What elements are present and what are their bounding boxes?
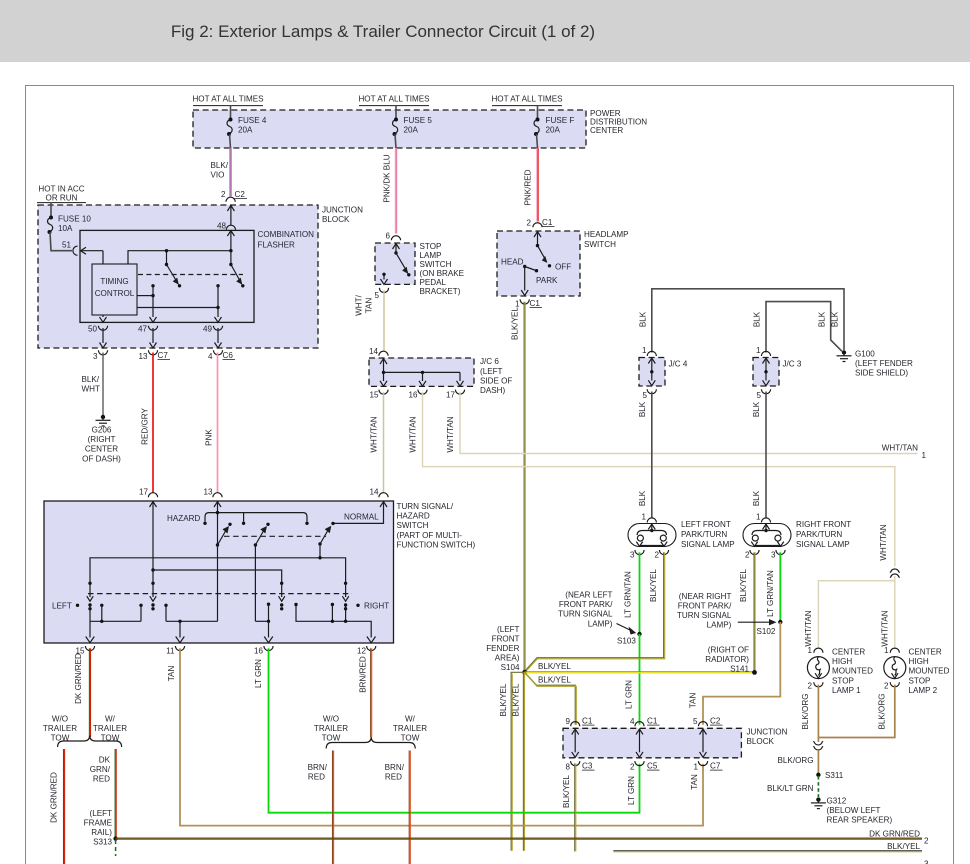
svg-text:LT GRN/TAN: LT GRN/TAN [624,571,633,618]
wire 48 into flasher [227,231,234,251]
svg-text:TAN: TAN [690,774,699,790]
J/C 6 box [369,358,474,386]
wire BLK J/C4 pin5 to left lamp [638,392,652,519]
connector 3 (left lamp bottom-left) [630,550,644,560]
wiper column left (x=90) [87,582,93,622]
wiper column (x=153, open) [150,582,156,611]
wire WHT/TAN branch to stop lamp 1 [804,581,895,649]
svg-text:SWITCH: SWITCH [397,521,429,530]
connector 16 [254,646,273,656]
svg-text:3: 3 [771,551,776,560]
svg-text:C6: C6 [223,351,234,360]
svg-text:NORMAL: NORMAL [344,513,379,522]
svg-text:FUSE 4: FUSE 4 [238,116,267,125]
middle contact bar (pin 11 exit) [164,604,217,643]
connector 2 (stop lamp 2) [884,682,899,691]
fuse FUSE 5 20A [393,116,433,148]
svg-text:STOP: STOP [832,676,854,685]
connector 1 C7 [693,761,722,771]
svg-text:LT GRN: LT GRN [627,776,636,805]
svg-text:1: 1 [756,513,761,522]
power distribution center box [193,110,586,148]
svg-text:BLK: BLK [753,311,762,327]
lower junction block internals [572,729,707,757]
svg-text:WHT/TAN: WHT/TAN [881,610,890,646]
svg-text:PNK/DK BLU: PNK/DK BLU [383,154,392,202]
svg-text:TRAILER: TRAILER [314,724,348,733]
connector 2 C1 (headlamp switch top) [526,218,554,228]
svg-text:HOT AT ALL TIMES: HOT AT ALL TIMES [491,95,563,104]
splice S103 [558,591,642,646]
svg-text:C7: C7 [158,351,169,360]
svg-text:GRN/: GRN/ [90,765,111,774]
svg-text:1: 1 [641,513,646,522]
svg-text:47: 47 [138,325,148,334]
connector 1 (J/C 4 top) [642,346,656,356]
svg-text:C1: C1 [542,218,553,227]
connector 5 (J/C 3 bottom) [756,389,770,400]
svg-text:VIO: VIO [211,171,225,180]
svg-text:(PART OF MULTI-: (PART OF MULTI- [397,531,463,540]
svg-text:JUNCTION: JUNCTION [747,728,788,737]
brace split trailer tow (right) [326,737,415,749]
svg-text:16: 16 [254,647,264,656]
connector 5 (stop lamp switch bottom) [374,288,388,300]
mechanical coupler dashed (lower) [88,593,352,595]
wire pin51 feed into timing control [102,251,104,264]
connector 16 [408,390,427,400]
wire BLK J/C3 pin5 to right lamp [752,392,766,519]
wire RED/GRY pin 13 C7 to turn signal pin 17 [141,353,154,493]
wire BLK/YEL S104 to junction block 9 C1 [525,672,577,725]
svg-text:TRAILER: TRAILER [393,724,427,733]
connector 4 C6 [208,350,235,361]
svg-text:BLK/YEL: BLK/YEL [739,569,748,602]
svg-text:9: 9 [565,717,570,726]
svg-text:JUNCTION: JUNCTION [322,206,363,215]
right front park/turn signal lamp [743,524,791,547]
ground G100 [837,350,914,378]
connector 50 [88,325,108,348]
svg-text:TURN SIGNAL: TURN SIGNAL [558,610,613,619]
svg-text:STOP: STOP [909,676,931,685]
svg-text:(BELOW LEFT: (BELOW LEFT [827,806,881,815]
svg-text:TOW: TOW [401,734,420,743]
svg-text:FUNCTION SWITCH): FUNCTION SWITCH) [397,540,476,549]
svg-text:MOUNTED: MOUNTED [909,667,950,676]
svg-text:PNK/RED: PNK/RED [524,169,533,205]
svg-text:TAN: TAN [167,666,176,682]
lower junction block box [563,728,741,758]
junction block box [38,205,318,348]
svg-text:S311: S311 [825,771,844,780]
center high mounted stop lamp 1 [807,657,829,679]
svg-text:HIGH: HIGH [909,657,929,666]
svg-text:FLASHER: FLASHER [258,241,295,250]
wire stub fuse 10 feed [50,203,52,218]
switch blade right (flasher) [229,251,244,288]
svg-text:C2: C2 [235,190,246,199]
svg-text:HAZARD: HAZARD [397,512,430,521]
svg-text:WHT/TAN: WHT/TAN [882,444,918,453]
svg-text:(NEAR LEFT: (NEAR LEFT [565,591,612,600]
headlamp switch internals [501,232,571,296]
svg-text:TIMING: TIMING [100,277,128,286]
connector 2 (right lamp bottom-left) [745,550,759,560]
svg-text:PNK: PNK [205,429,214,446]
svg-text:51: 51 [62,241,72,250]
svg-text:S102: S102 [757,627,776,636]
wire timing control to pin 50 [100,315,107,322]
inline connector on WHT/TAN at x=895 [879,524,900,648]
connector 13 C7 [138,350,170,361]
svg-text:CENTER: CENTER [85,445,118,454]
svg-text:BLK: BLK [639,311,648,327]
svg-text:BLK/YEL: BLK/YEL [511,307,520,340]
connector 15 (turn switch bottom) [75,646,94,656]
svg-text:HOT AT ALL TIMES: HOT AT ALL TIMES [358,95,430,104]
svg-text:RAIL): RAIL) [91,828,112,837]
svg-text:WHT: WHT [82,385,100,394]
svg-text:DK GRN/RED: DK GRN/RED [74,653,83,704]
svg-text:BRACKET): BRACKET) [420,287,461,296]
svg-text:OF DASH): OF DASH) [82,454,121,463]
connector 1 (stop lamp 2) [884,646,899,655]
svg-text:BLK: BLK [831,311,840,327]
svg-text:3: 3 [924,860,929,864]
svg-text:5: 5 [374,291,379,300]
svg-text:HOT IN ACC: HOT IN ACC [38,185,84,194]
wire BLK/ORG stop lamps to S311 [801,685,895,738]
connector 1 (right front lamp) [756,513,771,523]
splice S311 [816,771,844,780]
svg-text:15: 15 [369,391,379,400]
svg-text:SIGNAL LAMP: SIGNAL LAMP [796,540,850,549]
connector 3 (right lamp bottom-right) [771,550,785,560]
connector 2 (stop lamp 1) [807,682,823,691]
svg-text:2: 2 [807,682,812,691]
svg-text:20A: 20A [238,126,253,135]
svg-text:17: 17 [446,391,456,400]
svg-text:COMBINATION: COMBINATION [258,230,315,239]
wire WHT/TAN J/C6-16 to stop lamps [409,392,895,567]
svg-text:SIDE OF: SIDE OF [480,377,512,386]
svg-text:11: 11 [166,647,175,656]
wire BLK/YEL off-page 3 [613,842,929,864]
svg-text:S103: S103 [617,637,636,646]
wire BRN/RED w/o trailer tow branch [308,751,334,864]
wire DK GRN/RED w/o trailer tow branch [50,749,65,864]
svg-text:CENTER: CENTER [590,126,623,135]
splice S141 [705,646,757,675]
wiper column (x=281.7, open) [279,582,285,611]
wire TAN S102 to junction block 5 C2 [689,622,781,725]
svg-text:G100: G100 [855,350,875,359]
svg-text:BLK: BLK [752,490,761,506]
svg-text:HOT AT ALL TIMES: HOT AT ALL TIMES [192,95,264,104]
svg-text:BLOCK: BLOCK [322,215,350,224]
svg-text:1: 1 [922,451,927,460]
connector 14 (turn switch top) [369,488,388,498]
svg-text:3: 3 [630,551,635,560]
wire BLK/YEL S104 branch left down [499,672,525,850]
svg-text:C1: C1 [530,299,541,308]
svg-text:SWITCH: SWITCH [420,260,452,269]
svg-text:TOW: TOW [101,734,120,743]
wire WHT/TAN J/C6-15 to turn signal pin 14 [370,392,384,493]
svg-text:5: 5 [756,391,761,400]
wire BLK/YEL headlamp switch to splice S104 [511,302,526,673]
svg-text:SIGNAL LAMP: SIGNAL LAMP [681,540,735,549]
second rail from pin 17 [153,570,282,583]
svg-text:BLK/: BLK/ [211,161,229,170]
svg-text:(LEFT: (LEFT [480,367,503,376]
svg-text:BLK/ORG: BLK/ORG [801,694,810,730]
wire WHT/TAN stop lamp switch to J/C 6 pin 14 [355,290,385,351]
contact and wire to pin 47 [137,284,157,322]
svg-text:FRAME: FRAME [84,819,113,828]
svg-text:RIGHT: RIGHT [364,602,389,611]
wire BLK/YEL left lamp pin2 to S104 [525,552,665,672]
hazard blade2 bar (pin 16 exit) [255,603,272,643]
svg-text:FUSE F: FUSE F [546,116,575,125]
svg-text:BLK/YEL: BLK/YEL [538,662,571,671]
J/C 3 internals [763,358,770,386]
splice S102 [677,592,783,636]
pin 13 entry arrow and wire to hazard rail [214,502,221,545]
J/C 3 box [753,358,779,387]
svg-text:WHT/TAN: WHT/TAN [409,416,418,452]
svg-text:(LEFT: (LEFT [497,625,520,634]
wire LT GRN pin 16 to junction block 2 C5 [254,648,640,812]
right contact bar (pin 12 exit) [294,603,375,643]
svg-text:BLK/ORG: BLK/ORG [778,756,814,765]
connector 11 [166,646,185,656]
svg-text:(ON BRAKE: (ON BRAKE [420,269,465,278]
svg-text:20A: 20A [404,126,419,135]
svg-text:12: 12 [357,647,367,656]
svg-text:FRONT: FRONT [492,635,520,644]
wire BLK/YEL junction block 8 C3 down [562,763,576,851]
svg-text:G312: G312 [827,797,847,806]
svg-text:1: 1 [642,346,647,355]
wire DK GRN/RED pin 15 down to trailer tow split [74,648,91,737]
connector 13 (turn switch top) [203,488,222,498]
svg-text:LEFT: LEFT [52,602,72,611]
svg-text:TOW: TOW [322,734,341,743]
connector 14 (J/C 6 top) [369,347,388,356]
svg-text:BLK/YEL: BLK/YEL [499,683,508,716]
turn signal/hazard switch box [44,501,394,643]
connector 1 (stop lamp 1) [807,646,823,655]
contact and wire to pin 49 [137,284,222,322]
connector 17 (turn switch top) [139,488,158,498]
svg-text:1: 1 [693,763,698,772]
wire LT GRN/TAN right lamp pin3 to S102 [766,552,780,622]
svg-text:TOW: TOW [51,734,70,743]
svg-text:AREA): AREA) [495,654,520,663]
svg-text:RIGHT FRONT: RIGHT FRONT [796,520,851,529]
connector 8 C3 (lower junction block bottom) [565,761,594,771]
svg-text:PARK/TURN: PARK/TURN [681,530,727,539]
svg-text:C5: C5 [647,762,658,771]
connector 15 (J/C 6 bottom) [369,390,388,400]
svg-text:16: 16 [408,391,418,400]
svg-text:Fig 2: Exterior Lamps & Traile: Fig 2: Exterior Lamps & Trailer Connecto… [171,22,595,41]
inline connector on BLK/ORG [778,738,824,775]
svg-text:LAMP): LAMP) [588,620,613,629]
svg-text:TAN: TAN [689,693,698,709]
wire LT GRN S103 to junction block 4 C1 [625,634,640,725]
svg-text:HEAD: HEAD [501,258,524,267]
svg-text:S313: S313 [93,838,112,847]
svg-text:BLK/YEL: BLK/YEL [887,842,920,851]
connector 1 C1 (headlamp switch bottom) [515,299,542,309]
ground G312 [811,797,893,825]
fuse FUSE F 20A [534,116,574,148]
svg-text:OFF: OFF [555,263,571,272]
svg-text:CONTROL: CONTROL [95,289,135,298]
svg-text:PARK: PARK [536,276,558,285]
svg-text:BRN/: BRN/ [308,763,328,772]
svg-text:4: 4 [630,717,635,726]
svg-text:LAMP: LAMP [420,251,442,260]
svg-text:HAZARD: HAZARD [167,514,200,523]
wire PNK pin 4 C6 to turn signal pin 13 [205,353,218,493]
svg-text:2: 2 [884,682,889,691]
svg-text:CENTER: CENTER [832,648,865,657]
svg-text:FUSE 10: FUSE 10 [58,215,91,224]
svg-text:PEDAL: PEDAL [420,278,447,287]
connector 2 C5 [630,761,660,771]
svg-text:BLK: BLK [752,401,761,417]
svg-text:FENDER: FENDER [486,644,519,653]
svg-text:RADIATOR): RADIATOR) [705,655,749,664]
svg-text:WHT/TAN: WHT/TAN [370,416,379,452]
svg-text:BRN/: BRN/ [385,763,405,772]
svg-text:W/: W/ [405,715,416,724]
svg-text:BLK: BLK [638,490,647,506]
svg-text:2: 2 [221,190,226,199]
stop lamp switch box [375,243,415,284]
connector 4 C1 [630,717,660,727]
svg-text:BLK: BLK [818,311,827,327]
svg-text:W/O: W/O [52,715,68,724]
svg-text:RED: RED [308,773,325,782]
svg-text:HEADLAMP: HEADLAMP [584,230,629,239]
combination flasher box [80,230,254,322]
label LEFT [52,602,79,611]
connector 17 [446,390,465,400]
wire DK GRN/RED w/ trailer tow branch to S313 [90,749,116,839]
wire BLK/VIO from fuse 4 to junction block C2 [211,148,232,197]
hazard blade 2 [254,523,270,547]
svg-text:RED/GRY: RED/GRY [141,408,150,445]
svg-text:STOP: STOP [420,242,442,251]
wire C2 to 48 inside junction block [227,205,234,225]
svg-text:RED: RED [93,775,110,784]
svg-text:FRONT PARK/: FRONT PARK/ [559,600,613,609]
svg-text:WHT/TAN: WHT/TAN [446,416,455,452]
svg-text:PARK/TURN: PARK/TURN [796,530,842,539]
svg-text:1: 1 [807,646,812,655]
svg-text:6: 6 [385,232,390,241]
wire PNK/DK BLU from fuse 5 to stop lamp switch [383,148,397,234]
svg-text:8: 8 [565,763,570,772]
svg-text:LT GRN: LT GRN [254,659,263,688]
svg-text:C2: C2 [710,717,721,726]
fuse FUSE 4 20A [227,116,267,148]
svg-text:DK GRN/RED: DK GRN/RED [50,772,59,823]
svg-text:(LEFT FENDER: (LEFT FENDER [855,359,913,368]
svg-text:13: 13 [138,352,148,361]
svg-text:C1: C1 [582,717,593,726]
svg-text:W/O: W/O [323,715,339,724]
svg-text:BRN/RED: BRN/RED [359,656,368,693]
svg-text:2: 2 [654,551,659,560]
svg-text:FRONT PARK/: FRONT PARK/ [678,602,732,611]
svg-text:BLK/: BLK/ [82,375,100,384]
J/C 4 internals [648,358,655,386]
pin 17 entry arrow and wire [150,502,157,584]
svg-text:J/C 4: J/C 4 [669,360,688,369]
svg-text:LEFT FRONT: LEFT FRONT [681,520,731,529]
wire BLK J/C4 pin1 up to G100 [652,289,844,353]
svg-text:C7: C7 [710,762,721,771]
svg-text:BLK/LT GRN: BLK/LT GRN [767,784,814,793]
svg-text:LAMP 2: LAMP 2 [909,686,938,695]
svg-text:(LEFT: (LEFT [90,809,113,818]
wire BLK J/C3 pin1 up to G100 [766,302,842,353]
connector 1 (left front lamp) [641,513,656,523]
fuse FUSE 10 10A [48,215,92,235]
svg-text:13: 13 [203,488,213,497]
wire fuse 10 to combination flasher pin 51 [50,232,72,251]
connector 51 (flasher left edge) [62,241,103,256]
svg-text:(NEAR RIGHT: (NEAR RIGHT [679,592,732,601]
connector 47 [138,325,158,348]
svg-text:BLOCK: BLOCK [747,737,775,746]
svg-text:17: 17 [139,488,149,497]
svg-text:1: 1 [756,346,761,355]
wire BLK/YEL right lamp pin2 to S141 [739,552,755,672]
wire BRN/RED pin 12 down to trailer tow split [359,648,372,737]
connector 2 (left lamp bottom-right) [654,550,668,560]
svg-text:DK: DK [99,756,111,765]
mechanical coupling dashed (flasher) [138,274,243,276]
J/C 6 internals [380,359,464,387]
ground G206 [82,415,121,464]
left front park/turn signal lamp [628,524,676,547]
connector 49 [203,325,223,348]
connector 1 (J/C 3 top) [756,346,771,356]
svg-text:(RIGHT OF: (RIGHT OF [708,646,749,655]
center high mounted stop lamp 2 [884,657,906,679]
svg-text:WHT/TAN: WHT/TAN [879,524,888,560]
svg-text:BLK/YEL: BLK/YEL [538,676,571,685]
connector 2 C2 (junction block top) [221,190,247,202]
wire stub fuse F feed [537,106,539,119]
svg-text:2: 2 [745,551,750,560]
wire BLK/YEL S104 straight down [512,672,525,850]
wire WHT/TAN J/C6-17 to off-page 1 [446,392,927,460]
main rail [90,556,346,583]
connector 48 (flasher top) [217,222,236,231]
timing control box [92,264,137,315]
connector 5 (J/C 4 bottom) [642,389,656,400]
svg-text:48: 48 [217,222,227,231]
svg-text:C3: C3 [582,762,593,771]
